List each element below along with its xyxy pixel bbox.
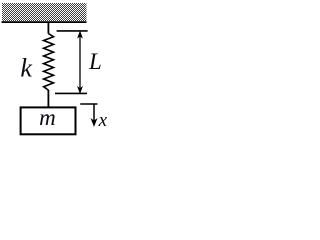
ceiling line	[2, 21, 87, 23]
L dimension arrow (double-headed)	[78, 32, 82, 93]
spring top rod	[47, 22, 49, 34]
svg-text:m: m	[39, 105, 56, 130]
svg-text:x: x	[98, 110, 108, 131]
spring k zigzag	[44, 34, 54, 91]
L top reference line	[57, 30, 88, 32]
ceiling hatch	[2, 3, 87, 21]
svg-text:L: L	[88, 49, 102, 74]
mass box m	[21, 107, 76, 134]
L bottom reference line	[55, 92, 87, 94]
x origin tick bar	[80, 103, 97, 105]
x displacement arrow	[92, 104, 97, 126]
svg-text:k: k	[20, 54, 32, 83]
spring bottom rod	[47, 90, 49, 107]
